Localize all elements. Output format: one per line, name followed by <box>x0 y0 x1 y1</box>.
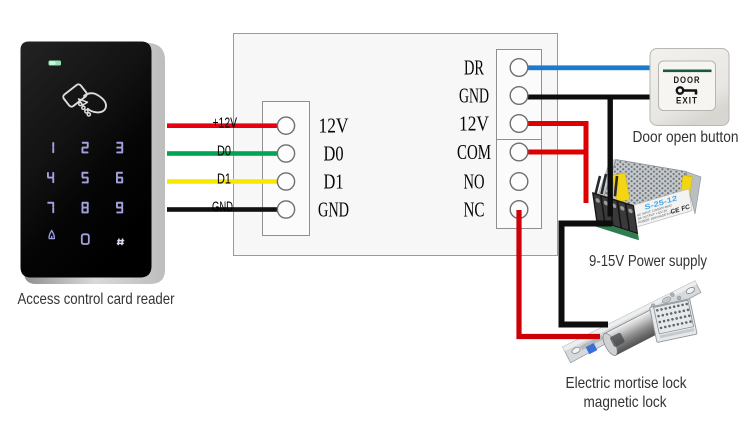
reader LED <box>49 61 62 66</box>
terminal pin GND (J1) <box>277 201 294 218</box>
door open button inner button <box>659 61 716 111</box>
terminal pin GND (J2/J3) <box>510 87 528 105</box>
controller box U1 <box>234 34 558 256</box>
svg-text:NO: NO <box>464 170 485 194</box>
keypad key bell <box>49 231 54 239</box>
svg-text:D0: D0 <box>217 142 231 159</box>
lock connector grid box <box>650 299 698 343</box>
svg-text:D1: D1 <box>217 170 231 187</box>
wire black (power supply to lock) <box>562 224 613 325</box>
keypad key 7 <box>47 202 54 213</box>
svg-text:D0: D0 <box>324 142 344 166</box>
terminal pin 12V (J1) <box>277 117 294 134</box>
reader swipe-card icon: hand <box>84 93 106 112</box>
terminal pin NO (J2/J3) <box>510 173 528 191</box>
psu yellow label right <box>679 175 692 204</box>
svg-text:Electric mortise lock: Electric mortise lock <box>566 375 688 392</box>
svg-text:NC: NC <box>464 198 485 222</box>
terminal pin COM (J2/J3) <box>510 143 528 161</box>
reader swipe-card icon: card <box>62 83 106 112</box>
svg-text:magnetic lock: magnetic lock <box>584 394 668 411</box>
svg-text:GND: GND <box>212 198 233 215</box>
reader swipe-card icon: fingertips <box>79 102 91 116</box>
wire +12V (red, reader to J1) <box>167 123 280 128</box>
svg-text:9-15V Power supply: 9-15V Power supply <box>589 253 707 270</box>
psu pcb edge <box>594 220 639 240</box>
svg-text:EXIT: EXIT <box>676 96 698 107</box>
access control card reader body (silver side) <box>24 43 165 284</box>
keypad key 2 <box>82 142 89 154</box>
keypad key 3 <box>116 142 123 154</box>
terminal pin NC (J2/J3) <box>510 201 528 219</box>
blue tab <box>586 343 598 354</box>
terminal block J1 (reader side) <box>263 102 310 236</box>
svg-text:DOOR: DOOR <box>674 75 701 86</box>
psu yellow label left <box>612 173 629 202</box>
wire D1 (yellow, reader to J1) <box>167 179 280 184</box>
access control card reader face <box>21 42 152 278</box>
wire GND (black, J2 to door button) <box>527 95 651 100</box>
keypad key 4 <box>47 172 54 183</box>
svg-text:GND: GND <box>459 84 489 108</box>
wire DR (blue, J2 to door button) <box>527 65 651 70</box>
keypad key 9 <box>116 202 123 214</box>
door button key icon <box>677 87 697 94</box>
terminal block J2 (DR/GND/12V) <box>497 50 542 140</box>
wire D0 (green, reader to J1) <box>167 151 280 156</box>
svg-text:12V: 12V <box>459 112 489 136</box>
lock cylinder (solenoid bolt body) <box>604 310 662 356</box>
wire GND (black, reader to J1) <box>167 207 280 212</box>
keypad key # <box>117 239 124 246</box>
electric mortise lock <box>563 280 709 376</box>
svg-text:Access control card reader: Access control card reader <box>18 291 176 308</box>
9-15V power supply body <box>590 160 701 241</box>
keypad key 5 <box>82 172 89 184</box>
svg-text:12V: 12V <box>319 114 349 138</box>
svg-text:GND: GND <box>318 198 349 222</box>
terminal block J3 (COM/NO/NC) <box>497 140 542 229</box>
door button green line <box>663 70 712 73</box>
svg-text:DR: DR <box>464 56 484 80</box>
psu input wire strands <box>596 174 618 196</box>
keypad key 1 <box>52 142 54 153</box>
svg-text:COM: COM <box>457 140 491 164</box>
terminal pin DR (J2/J3) <box>510 59 528 77</box>
terminal pin D0 (J1) <box>277 145 294 162</box>
keypad key 6 <box>116 172 123 184</box>
keypad key 8 <box>82 202 89 214</box>
terminal pin 12V (J2/J3) <box>510 115 528 133</box>
svg-text:+12V: +12V <box>213 115 238 132</box>
wire 12V (red, J2 to power supply) <box>527 124 586 204</box>
wire NC (red, J3 to lock) <box>519 210 600 337</box>
terminal pin D1 (J1) <box>277 173 294 190</box>
wire COM (red, J3 to power supply) <box>527 150 589 155</box>
svg-text:D1: D1 <box>324 170 344 194</box>
svg-text:Door open button: Door open button <box>633 129 739 146</box>
door open button plate <box>650 49 729 126</box>
wire black junction drop to power supply <box>608 95 613 217</box>
psu terminal block <box>590 191 639 240</box>
keypad key 0 <box>82 234 89 244</box>
